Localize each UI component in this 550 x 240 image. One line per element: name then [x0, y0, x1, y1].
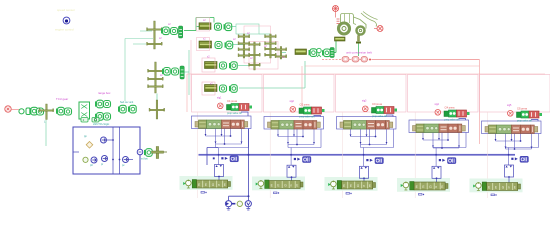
- converter block 3: [361, 57, 368, 63]
- internal node dots: [112, 139, 120, 160]
- highlight zone module 4: [397, 178, 450, 192]
- internal line v1: [112, 127, 114, 174]
- valve block red module 4: [457, 110, 467, 117]
- red dashed signal line: [322, 59, 372, 61]
- wire salmon vertical x479: [479, 60, 481, 145]
- wire row1 to frame: [231, 26, 236, 28]
- gear box R2: [199, 41, 212, 48]
- check valve mid2: [102, 156, 108, 162]
- junction dot pump: [248, 195, 250, 197]
- engine speed source: [5, 106, 11, 112]
- tractor vehicle icon: [341, 12, 378, 29]
- wire S7 to clutch: [282, 52, 286, 54]
- gear A2: [172, 68, 179, 75]
- wire loop-to-chain module 5: [508, 177, 510, 183]
- inertia box module 5: [489, 125, 497, 134]
- svg-text:E: E: [422, 185, 424, 189]
- bus left riser: [207, 148, 218, 166]
- valve block green module 5: [521, 111, 529, 118]
- main hydraulic bus: [199, 154, 516, 156]
- highlight zone module 2: [252, 177, 305, 191]
- front axle element: [356, 36, 361, 44]
- command source module 3: [363, 106, 369, 112]
- svg-text:sig5: sig5: [507, 104, 512, 107]
- piston box module 5: [512, 125, 521, 134]
- gain block module 3: [372, 108, 377, 114]
- end nub module 4: [445, 184, 448, 189]
- clutch R1: [224, 23, 232, 31]
- clutch R5a: [309, 49, 317, 57]
- piston box module 4: [439, 124, 448, 133]
- frame drop line module 2: [269, 112, 271, 198]
- gear S4c: [238, 48, 250, 51]
- clutch L1: [29, 107, 37, 115]
- shaft end right module 4: [462, 126, 466, 132]
- gear S6b: [265, 42, 277, 45]
- wire small-to-main module 3: [386, 115, 393, 117]
- tank unit module 5: [520, 156, 528, 162]
- shaft S3: [156, 100, 158, 119]
- valve block green module 2: [304, 107, 312, 114]
- end nub module 5: [518, 184, 521, 189]
- gear S1b: [147, 42, 163, 45]
- actuator loop module 2: [287, 165, 296, 178]
- hydraulic motor: [225, 201, 235, 207]
- ground tick right: [246, 207, 250, 210]
- shaft end right module 1: [244, 122, 248, 128]
- bus arrow module 3: [370, 159, 373, 162]
- frame box small R2: [197, 38, 210, 51]
- wire small-to-main module 2: [314, 116, 321, 117]
- source arrow module 2: [256, 183, 259, 186]
- svg-text:unit conversion belt: unit conversion belt: [346, 51, 372, 55]
- converter block 2: [352, 57, 359, 63]
- gear unit module 5: [497, 125, 512, 134]
- svg-text:n: n: [435, 185, 437, 189]
- clutch pack module 1: [231, 120, 241, 129]
- pressure source circle: [83, 157, 88, 162]
- end cell module 1: [241, 120, 245, 129]
- gear unit module 2: [279, 121, 294, 130]
- svg-text:n: n: [290, 184, 292, 188]
- wire into box: [73, 151, 79, 153]
- valve block red module 5: [529, 111, 539, 118]
- valve block red module 1: [239, 104, 249, 111]
- bus node square module 3: [366, 159, 368, 161]
- clutch body module 5: [487, 183, 518, 191]
- synchro R5: [330, 48, 334, 58]
- shaft S1: [154, 21, 156, 49]
- svg-text:E: E: [205, 183, 207, 187]
- gear S1a: [147, 28, 163, 31]
- wire salmon vertical x302: [301, 66, 303, 110]
- gear S3a: [149, 108, 165, 111]
- wire loop-to-chain module 4: [436, 178, 438, 182]
- gain block module 2: [299, 108, 304, 114]
- bus node dot extra module 1: [213, 157, 215, 159]
- wire drop grid module 1: [206, 129, 249, 165]
- wire small-to-main module 4: [459, 119, 466, 121]
- svg-text:E: E: [277, 184, 279, 188]
- arrowheads module 4: [422, 138, 460, 147]
- gear S5b: [249, 53, 261, 56]
- clutch pack module 4: [448, 124, 458, 133]
- rotary load module 2: [258, 180, 264, 188]
- internal line v2: [119, 127, 121, 174]
- converter mini block B: [92, 118, 99, 123]
- wire salmon x187: [186, 74, 188, 112]
- shaft end left module 3: [340, 122, 344, 128]
- red dashes grade signal: [337, 19, 340, 23]
- end cell module 2: [313, 121, 317, 130]
- wire loop module 4: [409, 120, 469, 133]
- wire row2 to S4: [233, 44, 244, 46]
- shaft X1: [46, 104, 48, 120]
- bus node square module 4: [439, 159, 441, 161]
- svg-text:E: E: [416, 185, 418, 189]
- svg-text:range box: range box: [98, 91, 111, 95]
- source arrow module 3: [328, 183, 331, 186]
- valve tip module 5: [540, 113, 543, 116]
- clutch L2: [56, 107, 64, 115]
- wire shaft X1 down: [45, 120, 47, 146]
- end cell module 5: [531, 125, 535, 134]
- gear S7a: [275, 48, 287, 51]
- junction dots module 3: [363, 136, 377, 156]
- valve block green module 3: [376, 107, 384, 114]
- wire salmon y74: [187, 73, 545, 75]
- valve tip module 3: [395, 109, 398, 112]
- wire loop module 2: [264, 117, 324, 130]
- gain block module 5: [517, 112, 522, 118]
- wire source: [11, 109, 19, 111]
- rotary load module 4: [403, 182, 409, 190]
- wire small-to-main module 5: [531, 120, 538, 122]
- command source module 2: [290, 107, 296, 113]
- svg-text:m.flow: m.flow: [141, 159, 148, 161]
- coupler box module 1: [192, 180, 196, 189]
- gear box R3: [205, 62, 218, 69]
- command source module 4: [435, 110, 441, 116]
- wire top across: [196, 17, 214, 19]
- end nub module 3: [373, 183, 376, 188]
- signal dot: [369, 59, 371, 61]
- svg-text:sig3: sig3: [362, 100, 367, 103]
- wire S2-S3: [156, 94, 158, 101]
- shaft load circle: [237, 201, 242, 206]
- frame drop line module 4: [414, 112, 416, 198]
- clutch L6: [128, 105, 136, 113]
- clutch out: [144, 149, 152, 157]
- main hydraulic bus core: [199, 154, 516, 156]
- gear S4d: [238, 54, 250, 57]
- actuator loop module 1: [215, 165, 224, 178]
- bus arrow module 5: [515, 157, 518, 160]
- source arrow module 4: [401, 184, 404, 187]
- svg-text:prop valve ctrl: prop valve ctrl: [300, 116, 315, 119]
- wire teal vertical x189: [188, 50, 190, 95]
- planetary R5: [317, 48, 321, 57]
- highlight zone module 5: [470, 179, 523, 193]
- synchro A2: [180, 66, 184, 79]
- svg-text:speed sensor: speed sensor: [57, 8, 75, 12]
- highlight zone module 1: [180, 176, 233, 190]
- tick label module 5: [491, 194, 497, 196]
- wire up to chain R5: [304, 61, 306, 88]
- wire left y44: [133, 43, 146, 45]
- wire drop grid module 3: [351, 129, 394, 166]
- output shaft cross: [152, 147, 168, 159]
- arrowheads module 5: [495, 139, 533, 148]
- coupler box module 4: [410, 182, 414, 191]
- shaft S5: [254, 42, 256, 70]
- wire drop grid module 2: [278, 129, 321, 165]
- wire stub R1: [196, 26, 199, 28]
- gear box R4: [205, 85, 218, 92]
- svg-text:E: E: [343, 184, 345, 188]
- outlet port: [137, 149, 143, 155]
- gear S4b: [238, 42, 250, 45]
- wire loop-to-chain module 3: [363, 178, 365, 181]
- wire clutch A1 to row: [184, 30, 196, 32]
- svg-text:Cl5 press: Cl5 press: [517, 108, 528, 111]
- clutch body module 1: [197, 180, 228, 188]
- bus node square module 2: [294, 158, 296, 160]
- tank unit module 4: [448, 158, 456, 164]
- tick label module 1: [201, 192, 207, 194]
- svg-text:prop valve ctrl: prop valve ctrl: [517, 120, 532, 123]
- highlight zone module 3: [325, 177, 378, 191]
- shaft S6: [270, 34, 272, 58]
- tractor gear box: [335, 37, 346, 41]
- valve block green module 4: [449, 110, 457, 117]
- clutch R3: [229, 62, 237, 70]
- shaft end left module 5: [485, 127, 489, 133]
- gear L4: [104, 113, 111, 120]
- bus arrow module 4: [442, 159, 445, 162]
- svg-text:E: E: [350, 184, 352, 188]
- frame box small R1: [197, 18, 210, 32]
- gear unit module 1: [207, 120, 222, 129]
- gear R1: [215, 23, 222, 30]
- svg-text:Cl2 press: Cl2 press: [300, 104, 311, 107]
- frame drop line module 1: [197, 112, 199, 198]
- gear unit module 3: [352, 121, 367, 130]
- junction dots module 4: [435, 139, 449, 156]
- tank unit module 2: [303, 157, 311, 163]
- wire drop grid module 4: [423, 133, 466, 167]
- piston box module 1: [222, 120, 231, 129]
- tank unit module 3: [375, 158, 383, 164]
- gear box R5: [295, 49, 307, 55]
- arrowheads module 3: [350, 135, 388, 144]
- svg-text:n: n: [218, 183, 220, 187]
- actuator loop module 5: [505, 165, 514, 178]
- gear S6a: [265, 35, 277, 38]
- actuator loop module 3: [360, 166, 369, 179]
- shaft S4: [243, 34, 245, 58]
- clutch L4: [95, 113, 103, 121]
- wire loop-to-chain module 1: [218, 177, 220, 181]
- frame box shaft pair 1: [244, 26, 271, 63]
- gear R3: [220, 62, 227, 69]
- clutch R2: [225, 41, 233, 49]
- wind source icon: [333, 6, 339, 18]
- valve tip module 2: [322, 109, 325, 112]
- frame box small R4: [202, 82, 215, 95]
- clutch pack module 3: [376, 121, 386, 130]
- gear L2: [65, 108, 72, 115]
- wire R5 out: [333, 52, 337, 54]
- wire row3 to S5: [238, 65, 255, 67]
- svg-text:E: E: [369, 184, 371, 188]
- wire left y31: [140, 30, 152, 32]
- rotary load module 5: [476, 182, 482, 190]
- svg-text:sig1: sig1: [217, 97, 222, 100]
- ground tick left: [227, 207, 231, 210]
- svg-text:E: E: [495, 186, 497, 190]
- inertia box module 3: [344, 121, 352, 130]
- shaft S7: [280, 47, 282, 60]
- inertia box module 4: [416, 124, 424, 133]
- source arrow module 5: [473, 185, 476, 188]
- rotary load module 1: [186, 180, 192, 188]
- svg-text:pr: pr: [101, 163, 103, 166]
- svg-text:prop valve ctrl: prop valve ctrl: [227, 112, 242, 115]
- frame drop line module 3: [342, 112, 344, 198]
- supervisor frame box 4: [408, 75, 479, 113]
- wire A2 out: [184, 71, 189, 73]
- tank unit module 1: [230, 156, 238, 162]
- gear R2: [215, 42, 222, 49]
- shaft end left module 2: [268, 122, 272, 128]
- check valve right: [123, 157, 134, 163]
- tick label module 2: [274, 192, 280, 194]
- junction dots module 2: [290, 136, 304, 156]
- svg-text:fwd rev unit: fwd rev unit: [120, 100, 134, 104]
- wire loop module 3: [337, 117, 397, 130]
- svg-text:Cl4 press: Cl4 press: [445, 107, 456, 110]
- svg-text:shift TCU logic: shift TCU logic: [93, 123, 110, 126]
- wire teal vertical left: [124, 39, 126, 102]
- gear box R1: [199, 23, 211, 30]
- wire pink x191: [190, 40, 192, 100]
- check valve top: [101, 137, 114, 143]
- wire small-to-main module 1: [241, 112, 248, 116]
- actuator loop module 4: [432, 166, 441, 179]
- clutch R5b: [322, 49, 330, 57]
- inertia box module 1: [199, 120, 207, 129]
- frame drop line module 5: [487, 112, 489, 198]
- gear X1: [39, 109, 54, 112]
- orifice diamond: [86, 142, 93, 149]
- source arrow module 1: [183, 182, 186, 185]
- svg-text:E: E: [514, 186, 516, 190]
- wire up to tractor box: [335, 41, 337, 53]
- svg-text:E: E: [441, 185, 443, 189]
- shaft end left module 4: [413, 126, 417, 132]
- tank valve circle: [245, 201, 251, 207]
- piston box module 2: [294, 121, 303, 130]
- wire drop grid module 5: [496, 134, 539, 166]
- wire salmon y66: [305, 65, 480, 67]
- valve tip module 1: [250, 106, 253, 109]
- rotary load module 3: [331, 181, 337, 189]
- svg-text:prop valve ctrl: prop valve ctrl: [445, 119, 460, 122]
- supervisor frame box 5: [480, 75, 550, 113]
- valve block green module 1: [231, 104, 239, 111]
- tractor rear wheel: [339, 23, 350, 34]
- clutch L5: [118, 105, 126, 113]
- end cell module 3: [386, 121, 390, 130]
- pump riser wire: [229, 129, 249, 201]
- range selector box: [79, 102, 90, 119]
- gain block module 1: [227, 105, 232, 111]
- gear L3: [104, 101, 111, 108]
- wire down to row1: [213, 18, 215, 23]
- svg-text:n: n: [363, 184, 365, 188]
- gear S6c: [265, 47, 277, 50]
- arrowheads module 2: [277, 135, 315, 144]
- command source module 1: [218, 103, 224, 109]
- valve block red module 2: [312, 107, 322, 114]
- svg-text:prop valve ctrl: prop valve ctrl: [372, 115, 387, 118]
- svg-text:E: E: [488, 186, 490, 190]
- force source icon: [374, 26, 383, 32]
- junction dot bus: [248, 154, 250, 156]
- svg-text:E: E: [296, 184, 298, 188]
- clutch body module 4: [414, 182, 445, 190]
- tick label module 4: [419, 194, 425, 196]
- frame box small R3: [202, 58, 215, 72]
- wire loop module 1: [192, 116, 252, 129]
- rotary sensor icon: [63, 17, 70, 24]
- converter block 1: [342, 57, 349, 63]
- svg-text:sig2: sig2: [290, 100, 295, 103]
- coupler box module 3: [337, 181, 341, 190]
- gear S2c: [148, 85, 164, 88]
- gear S7b: [275, 55, 287, 58]
- clutch body module 2: [269, 181, 300, 189]
- wire row4 long right: [239, 87, 305, 89]
- command source module 5: [508, 111, 514, 117]
- end nub module 2: [300, 182, 303, 187]
- wire S5 down: [254, 59, 256, 66]
- bus node square module 1: [221, 157, 223, 159]
- coupler box module 5: [482, 182, 486, 191]
- clutch pack module 2: [303, 121, 313, 130]
- gear L1: [37, 108, 44, 115]
- wire loop-to-chain module 2: [291, 177, 293, 180]
- hydraulic supply box: [73, 127, 140, 174]
- gear unit module 4: [424, 124, 439, 133]
- piston box module 3: [367, 121, 376, 130]
- gear S4a: [238, 35, 250, 38]
- accessory gear: [19, 109, 24, 114]
- svg-text:sig4: sig4: [435, 103, 440, 106]
- gear S6d: [265, 53, 277, 56]
- svg-text:E: E: [271, 184, 273, 188]
- svg-text:Cl1 press: Cl1 press: [227, 100, 238, 103]
- wire red right: [372, 59, 480, 61]
- supervisor frame box 3: [336, 75, 407, 113]
- svg-text:engine control: engine control: [55, 28, 74, 32]
- shaft S2: [155, 62, 157, 93]
- clutch L3: [95, 100, 103, 108]
- svg-text:E: E: [224, 183, 226, 187]
- tractor front wheel: [357, 27, 365, 35]
- end cell module 4: [458, 124, 462, 133]
